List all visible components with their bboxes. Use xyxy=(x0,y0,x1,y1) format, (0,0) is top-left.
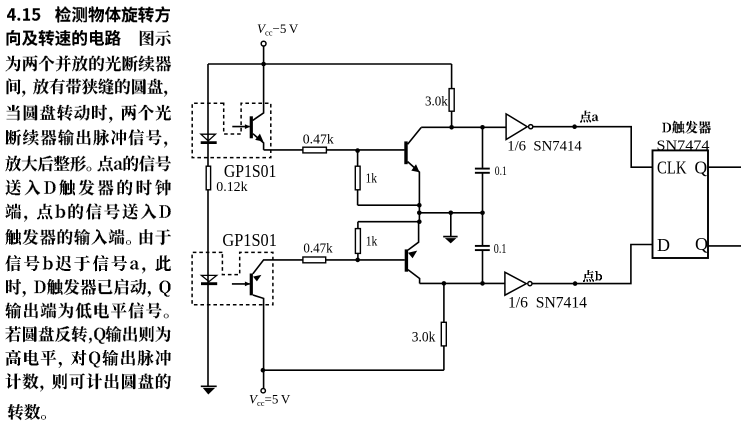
svg-text:0.1: 0.1 xyxy=(495,163,507,178)
svg-text:D: D xyxy=(657,235,670,255)
svg-text:1k: 1k xyxy=(366,234,378,249)
svg-text:Q: Q xyxy=(695,157,708,177)
svg-text:0.47k: 0.47k xyxy=(303,241,333,256)
svg-text:1/6 SN7414: 1/6 SN7414 xyxy=(508,294,587,311)
svg-text:GP1S01: GP1S01 xyxy=(224,161,277,181)
svg-text:SN7474: SN7474 xyxy=(657,138,711,154)
svg-text:3.0k: 3.0k xyxy=(425,94,448,109)
svg-text:GP1S01: GP1S01 xyxy=(222,230,277,250)
svg-text:1k: 1k xyxy=(366,171,378,186)
svg-text:Vcc=5 V: Vcc=5 V xyxy=(249,392,291,409)
svg-text:0.12k: 0.12k xyxy=(216,180,247,195)
svg-text:Vcc−5 V: Vcc−5 V xyxy=(257,21,299,38)
svg-text:1/6 SN7414: 1/6 SN7414 xyxy=(507,139,582,155)
svg-text:3.0k: 3.0k xyxy=(412,330,436,346)
svg-text:Q: Q xyxy=(695,234,708,254)
svg-text:CLK: CLK xyxy=(657,157,687,177)
svg-text:0.47k: 0.47k xyxy=(303,132,334,147)
svg-text:0.1: 0.1 xyxy=(494,241,507,256)
